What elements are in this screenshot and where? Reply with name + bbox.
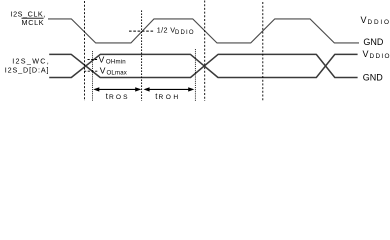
dashed leader for 1/2 VDDIO level xyxy=(129,30,154,32)
wire I2S_WC / I2S_D data bus line A (starts high) xyxy=(49,54,357,77)
wire I2S_CLK/MCLK clock waveform xyxy=(48,19,359,43)
svg-text:GND: GND xyxy=(363,73,384,83)
svg-text:GND: GND xyxy=(363,37,384,47)
svg-text:DDIO: DDIO xyxy=(368,19,390,26)
dash-dot leader for VOHmin xyxy=(88,59,98,61)
svg-text:OHmin: OHmin xyxy=(106,59,126,66)
svg-text:V: V xyxy=(99,54,105,64)
wire I2S_WC / I2S_D data bus line B (starts low) xyxy=(49,54,357,77)
dashed reference line at clock falling edge 1 (x=84.5) xyxy=(84,1,86,101)
svg-text:V: V xyxy=(361,15,367,25)
svg-text:I2S_D[D:A]: I2S_D[D:A] xyxy=(5,65,49,74)
dotted reference line at data change start (x=195.4) xyxy=(194,49,196,101)
dimension arrow tROS xyxy=(95,88,140,90)
svg-text:MCLK: MCLK xyxy=(22,18,44,27)
svg-text:ROH: ROH xyxy=(159,94,179,101)
svg-text:DDIO: DDIO xyxy=(370,53,390,60)
dashed reference line at clock falling edge 2 (x=204.7) xyxy=(204,1,206,102)
svg-text:DDIO: DDIO xyxy=(175,30,194,36)
dotted reference line at data valid point (x=92.5) xyxy=(92,51,94,101)
svg-text:V: V xyxy=(100,65,106,75)
dashed reference line at clock rising edge 1 (x=141.6) xyxy=(141,10,143,101)
svg-text:I2S_WC,: I2S_WC, xyxy=(12,57,49,66)
svg-text:1/2 V: 1/2 V xyxy=(157,25,175,34)
svg-text:V: V xyxy=(363,49,369,59)
svg-text:OLmax: OLmax xyxy=(107,69,127,76)
svg-text:ROS: ROS xyxy=(109,94,128,101)
dimension arrow tROH xyxy=(146,88,193,90)
dashed reference line at clock rising edge 2 (x=262.8) xyxy=(262,2,264,101)
dash-dot leader for VOLmax xyxy=(84,70,98,72)
